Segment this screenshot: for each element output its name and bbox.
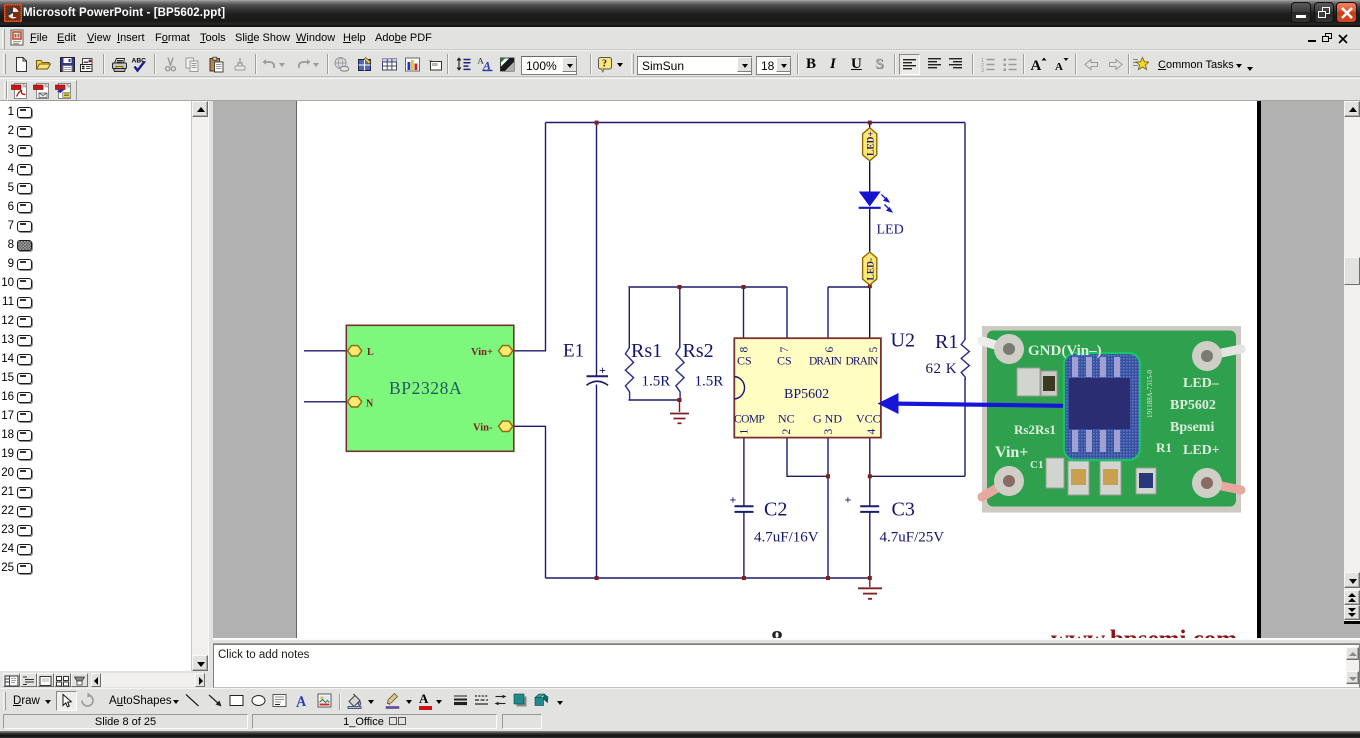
svg-text:A: A [295, 694, 307, 709]
